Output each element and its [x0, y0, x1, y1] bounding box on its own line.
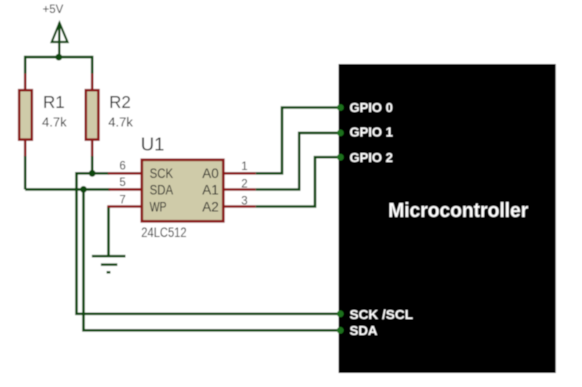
svg-text:SCK: SCK	[150, 166, 174, 181]
svg-text:GPIO 0: GPIO 0	[350, 100, 393, 115]
svg-text:4.7k: 4.7k	[108, 115, 133, 130]
svg-text:7: 7	[119, 194, 125, 206]
svg-text:SDA: SDA	[150, 182, 174, 197]
svg-text:6: 6	[119, 161, 125, 173]
svg-text:+5V: +5V	[43, 4, 64, 16]
svg-text:A2: A2	[202, 199, 219, 214]
svg-text:GPIO 2: GPIO 2	[350, 150, 393, 165]
svg-text:SDA: SDA	[350, 323, 379, 338]
svg-text:R2: R2	[109, 92, 131, 112]
svg-text:A1: A1	[202, 182, 219, 197]
svg-text:R1: R1	[43, 92, 65, 112]
svg-text:2: 2	[241, 179, 247, 191]
svg-text:3: 3	[241, 196, 247, 208]
svg-text:SCK /SCL: SCK /SCL	[350, 307, 414, 322]
svg-text:24LC512: 24LC512	[141, 225, 186, 240]
svg-text:WP: WP	[150, 199, 167, 214]
svg-text:A0: A0	[202, 166, 219, 181]
svg-text:1: 1	[241, 161, 247, 173]
svg-text:GPIO 1: GPIO 1	[350, 125, 393, 140]
svg-text:5: 5	[119, 177, 125, 189]
svg-text:Microcontroller: Microcontroller	[388, 200, 528, 222]
svg-text:4.7k: 4.7k	[42, 115, 67, 130]
svg-text:U1: U1	[141, 134, 165, 155]
